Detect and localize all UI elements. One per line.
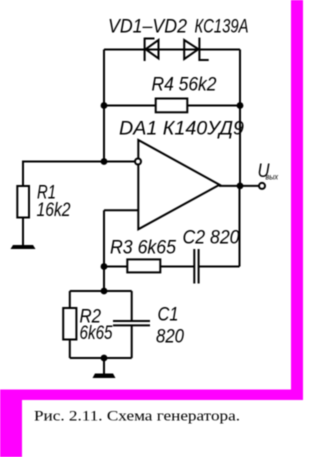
svg-text:C1: C1 (158, 305, 179, 326)
svg-text:КС139А: КС139А (195, 17, 249, 38)
svg-text:C2 820: C2 820 (183, 228, 240, 249)
svg-text:820: 820 (156, 327, 184, 348)
svg-text:Рис. 2.11. Схема генератора.: Рис. 2.11. Схема генератора. (34, 409, 240, 425)
svg-text:DA1 К140УД9: DA1 К140УД9 (119, 119, 244, 140)
svg-text:VD1–VD2: VD1–VD2 (108, 17, 187, 38)
svg-text:16k2: 16k2 (37, 200, 71, 221)
svg-text:вых: вых (266, 173, 279, 182)
svg-text:6k65: 6k65 (80, 323, 113, 344)
svg-text:R4 56k2: R4 56k2 (152, 75, 217, 96)
svg-text:R3 6k65: R3 6k65 (110, 238, 176, 259)
